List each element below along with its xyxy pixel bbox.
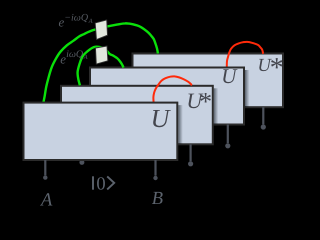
svg-text:0: 0 [96,174,105,194]
svg-text:*: * [268,52,282,83]
svg-text:B: B [152,189,163,209]
svg-text:*: * [198,87,211,116]
svg-text:U: U [151,104,172,133]
svg-text:U: U [221,64,238,88]
svg-text:A: A [39,190,53,210]
